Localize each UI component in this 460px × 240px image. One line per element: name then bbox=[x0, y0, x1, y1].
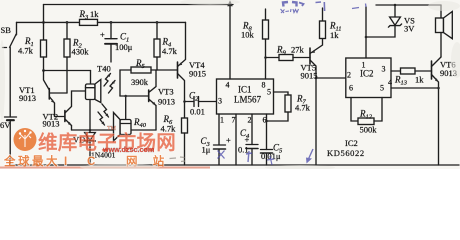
svg-text:4: 4 bbox=[226, 81, 230, 90]
transistor VT5 bbox=[309, 48, 311, 64]
svg-text:10k: 10k bbox=[241, 30, 255, 40]
T40 emitted wave arrows bbox=[104, 74, 111, 87]
wire emitter bias line bbox=[72, 129, 121, 131]
blue X mark bbox=[218, 151, 225, 159]
transistor VT3 bbox=[148, 90, 150, 102]
svg-text:VT3: VT3 bbox=[158, 87, 174, 97]
svg-text:TM: TM bbox=[107, 126, 117, 132]
switch SB bbox=[16, 22, 18, 34]
svg-text:4.7k: 4.7k bbox=[162, 46, 178, 56]
transducer R40 bbox=[125, 96, 127, 120]
svg-text:IC2: IC2 bbox=[360, 69, 374, 79]
svg-text:0.01: 0.01 bbox=[190, 107, 205, 117]
resistor R8 bbox=[265, 9, 267, 20]
svg-text:9015: 9015 bbox=[301, 71, 318, 81]
wire VT4 collector bbox=[178, 74, 185, 119]
svg-text:T40: T40 bbox=[97, 64, 111, 74]
svg-text:1k: 1k bbox=[90, 9, 99, 19]
wire IC2 pin5 bbox=[374, 98, 382, 122]
capacitor C2 bbox=[185, 101, 195, 103]
node C2 tap junction bbox=[183, 100, 186, 103]
svg-text:9015: 9015 bbox=[189, 69, 206, 79]
svg-text:5: 5 bbox=[380, 84, 384, 93]
svg-text:4.7k: 4.7k bbox=[18, 46, 34, 56]
svg-text:+: + bbox=[245, 135, 250, 145]
transistor VT4 bbox=[177, 62, 179, 78]
diode VD1 bbox=[89, 130, 91, 133]
svg-text:IC1: IC1 bbox=[238, 85, 252, 95]
wire main rail right segment bbox=[98, 21, 186, 23]
IC U2 KD56022 box bbox=[346, 58, 391, 98]
svg-text:8: 8 bbox=[262, 81, 266, 90]
wire switch to battery bbox=[9, 48, 11, 117]
wire VT4 base bbox=[157, 69, 178, 71]
svg-text:27k: 27k bbox=[291, 45, 305, 55]
wire IC2 pin1 bbox=[365, 7, 367, 58]
svg-text:500k: 500k bbox=[360, 125, 378, 135]
svg-text:4.7k: 4.7k bbox=[295, 103, 311, 113]
svg-text:+: + bbox=[100, 30, 105, 40]
transistor VT1 bbox=[48, 89, 50, 100]
resistor R2 bbox=[66, 22, 68, 39]
node junction R1/rail bbox=[42, 21, 45, 24]
battery 6V bbox=[5, 116, 17, 118]
svg-text:6: 6 bbox=[263, 116, 267, 125]
wire top right rail bbox=[376, 4, 441, 6]
wire upper rail drop to main rail bbox=[43, 5, 45, 23]
resistor R4 bbox=[156, 22, 158, 39]
svg-text:R40: R40 bbox=[133, 117, 147, 129]
blue tick mark bbox=[246, 151, 252, 162]
svg-text:1k: 1k bbox=[415, 75, 424, 85]
blue down arrow bbox=[308, 149, 313, 160]
resistor R5 bbox=[131, 67, 151, 73]
svg-text:100μ: 100μ bbox=[115, 42, 133, 52]
wire R9 junction bbox=[264, 56, 267, 59]
svg-text:1: 1 bbox=[362, 61, 366, 70]
resistor R12 bbox=[358, 118, 374, 125]
resistor R7 bbox=[274, 92, 289, 95]
wire VT1 base from R2 bbox=[49, 92, 67, 94]
svg-text:1μ: 1μ bbox=[202, 145, 211, 155]
node VT1 collector bbox=[42, 69, 45, 72]
transistor VT2 bbox=[64, 111, 66, 122]
wire battery to ground rail bbox=[9, 121, 11, 165]
capacitor C5 bbox=[266, 114, 268, 150]
svg-text:1k: 1k bbox=[330, 30, 339, 40]
svg-text:IC2: IC2 bbox=[345, 138, 358, 148]
svg-text:390k: 390k bbox=[131, 77, 149, 87]
wire upper rail bbox=[44, 4, 234, 6]
wire VT1 emitter to VT2 base bbox=[55, 103, 65, 117]
svg-text:0.1: 0.1 bbox=[238, 145, 249, 155]
zener diode VS bbox=[365, 36, 368, 39]
logo watermark circle bbox=[14, 128, 37, 151]
svg-text:+: + bbox=[226, 135, 231, 145]
svg-text:4: 4 bbox=[388, 78, 392, 87]
capacitor C3 bbox=[218, 114, 220, 145]
transistor VT6 bbox=[431, 61, 433, 79]
ground rail bbox=[10, 164, 459, 166]
svg-text:9013: 9013 bbox=[19, 93, 36, 103]
svg-text:7: 7 bbox=[232, 116, 236, 125]
wire VT1 collector line to T40 bbox=[44, 70, 91, 72]
wire VT3 base line bbox=[120, 95, 149, 97]
svg-text:1: 1 bbox=[220, 116, 224, 125]
svg-text:6V: 6V bbox=[0, 120, 11, 130]
resistor R3 bbox=[80, 19, 98, 25]
svg-text:I: I bbox=[64, 156, 67, 168]
svg-text:9013: 9013 bbox=[158, 97, 175, 107]
R40 received wave arrows bbox=[102, 104, 109, 117]
resistor R9 bbox=[266, 57, 280, 59]
wire IC2 pin4 to ground line bbox=[391, 87, 439, 89]
svg-text:2: 2 bbox=[347, 71, 351, 80]
svg-text:LM567: LM567 bbox=[234, 95, 262, 105]
svg-text:www.dzsc.com: www.dzsc.com bbox=[102, 145, 154, 154]
svg-text:SB: SB bbox=[1, 25, 12, 35]
svg-text:5: 5 bbox=[267, 88, 271, 97]
wire IC1 pin4 +6V arrow bbox=[229, 4, 231, 79]
IC U1 LM567 box bbox=[217, 79, 274, 114]
wire IC2 pin6 bbox=[351, 98, 358, 122]
resistor R1 bbox=[43, 22, 45, 40]
loudspeaker BL bbox=[440, 5, 442, 18]
svg-text:9013: 9013 bbox=[43, 119, 60, 129]
svg-text:3: 3 bbox=[218, 97, 222, 106]
svg-text:全球最大: 全球最大 bbox=[3, 154, 60, 168]
capacitor C1 bbox=[110, 22, 112, 38]
svg-text:3V: 3V bbox=[404, 24, 415, 34]
resistor R13 bbox=[391, 70, 401, 72]
blue stamp marks bbox=[218, 2, 367, 165]
svg-text:KD56022: KD56022 bbox=[327, 148, 365, 158]
wire IC1 pin7 ground bbox=[235, 114, 237, 165]
svg-text:2: 2 bbox=[248, 116, 252, 125]
resistor R11 bbox=[322, 8, 324, 21]
capacitor C4 bbox=[251, 114, 253, 145]
svg-text:430k: 430k bbox=[72, 47, 90, 57]
resistor R6 bbox=[182, 118, 188, 133]
wire VT5 collector to IC2 pin2 bbox=[315, 77, 318, 80]
svg-text:R13: R13 bbox=[394, 75, 408, 87]
transducer T40 bbox=[90, 71, 92, 85]
svg-text:6: 6 bbox=[349, 84, 353, 93]
watermark red underline bbox=[0, 167, 210, 169]
svg-text:3: 3 bbox=[382, 65, 386, 74]
wire main +rail left segment bbox=[17, 21, 80, 23]
